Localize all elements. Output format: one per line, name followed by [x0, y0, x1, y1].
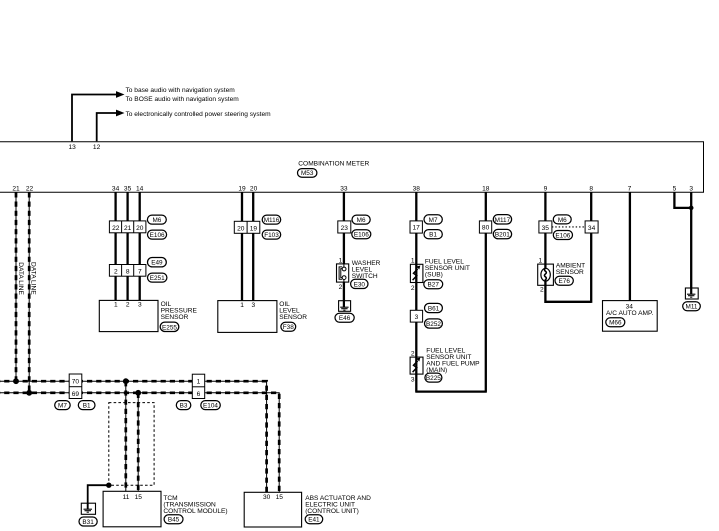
wire ambient sensor pin 2 to meter pin 8	[545, 285, 591, 302]
svg-text:23: 23	[341, 225, 349, 232]
svg-text:20: 20	[237, 225, 245, 232]
connector oval B1 group4	[424, 230, 442, 239]
svg-text:7: 7	[628, 185, 632, 192]
svg-text:B225: B225	[426, 375, 441, 382]
svg-text:M7: M7	[58, 403, 67, 410]
svg-text:35: 35	[542, 225, 550, 232]
wire pin 8	[590, 192, 592, 303]
wire pin 12 to power steering	[97, 113, 117, 141]
connector oval E49	[148, 258, 167, 267]
svg-text:3: 3	[138, 302, 142, 309]
wire pin 20	[252, 192, 254, 300]
svg-text:CONTROL MODULE): CONTROL MODULE)	[163, 508, 227, 515]
svg-text:6: 6	[197, 391, 201, 398]
fuel level sensor unit and fuel pump (main) B225	[410, 357, 423, 374]
svg-text:A/C AUTO AMP.: A/C AUTO AMP.	[606, 310, 654, 317]
connector oval E76	[555, 276, 573, 285]
junction pin 5 / pin 3	[689, 206, 694, 211]
connector oval M117	[493, 215, 511, 224]
connector oval M53	[298, 169, 317, 178]
svg-text:5: 5	[673, 185, 677, 192]
svg-text:SENSOR: SENSOR	[556, 269, 584, 276]
body ground E46	[339, 301, 351, 312]
connector oval E30	[351, 279, 368, 288]
svg-text:To electronically controlled p: To electronically controlled power steer…	[126, 111, 272, 118]
svg-text:B1: B1	[429, 232, 437, 239]
body ground M11	[685, 288, 698, 299]
svg-text:18: 18	[482, 185, 490, 192]
svg-text:2: 2	[339, 284, 343, 291]
svg-text:M6: M6	[357, 217, 366, 224]
connector oval M6 group1	[147, 215, 166, 224]
washer level switch E30	[337, 264, 349, 282]
wire pin 19	[241, 192, 243, 300]
ambient sensor E76 (thermistor)	[538, 264, 554, 285]
svg-text:12: 12	[93, 144, 101, 151]
connector oval M7 bottom	[55, 401, 70, 410]
body ground B31	[81, 503, 95, 514]
svg-text:1: 1	[240, 302, 244, 309]
svg-text:35: 35	[124, 185, 132, 192]
svg-text:To base audio with navigation: To base audio with navigation system	[126, 87, 236, 94]
shield dashed box around TCM data lines	[109, 403, 154, 486]
svg-text:3: 3	[251, 302, 255, 309]
connector B61/B252 cell 3	[410, 310, 422, 322]
connector oval B252	[425, 319, 443, 328]
wire pin 38	[415, 192, 417, 391]
svg-text:69: 69	[72, 391, 80, 398]
connector oval F38	[281, 322, 296, 331]
svg-text:E251: E251	[150, 275, 165, 282]
junction bus 1 / TCM branch	[123, 378, 129, 384]
svg-text:B61: B61	[428, 306, 440, 313]
svg-text:B201: B201	[495, 232, 510, 239]
connector M116/F103 cells 20 19	[234, 221, 259, 233]
data line wire pin 22	[28, 192, 30, 392]
svg-text:E49: E49	[151, 260, 163, 267]
connector oval E251	[148, 273, 167, 282]
svg-text:M116: M116	[264, 217, 280, 224]
connector oval E106 group1	[148, 230, 167, 239]
svg-text:B27: B27	[428, 282, 440, 289]
svg-text:F38: F38	[283, 324, 294, 331]
svg-text:3: 3	[415, 314, 419, 321]
svg-text:3: 3	[411, 377, 415, 384]
svg-text:22: 22	[112, 225, 120, 232]
connector oval M66	[606, 318, 625, 327]
svg-text:1: 1	[339, 258, 343, 265]
svg-text:SENSOR: SENSOR	[161, 314, 189, 321]
connector oval E255	[160, 322, 179, 331]
svg-text:M117: M117	[495, 217, 511, 224]
svg-text:14: 14	[136, 185, 144, 192]
svg-text:M6: M6	[152, 217, 161, 224]
wire pin 35	[126, 192, 128, 300]
svg-text:M6: M6	[558, 217, 567, 224]
data line branch to TCM pin 15	[137, 393, 139, 492]
svg-text:COMBINATION METER: COMBINATION METER	[298, 161, 369, 168]
svg-text:80: 80	[482, 225, 490, 232]
wire pin 34	[114, 192, 116, 300]
wire pin 3	[690, 192, 692, 287]
svg-text:17: 17	[413, 225, 421, 232]
svg-text:11: 11	[123, 494, 130, 501]
svg-text:(CONTROL UNIT): (CONTROL UNIT)	[305, 508, 359, 515]
svg-text:2: 2	[411, 351, 415, 358]
data line branch to TCM pin 11	[125, 381, 127, 491]
svg-text:B1: B1	[83, 403, 91, 410]
svg-text:F103: F103	[264, 232, 279, 239]
svg-text:15: 15	[135, 494, 143, 501]
wire pin 5	[674, 192, 691, 208]
svg-text:2: 2	[114, 268, 118, 275]
svg-text:20: 20	[250, 185, 258, 192]
svg-text:B45: B45	[168, 517, 180, 524]
svg-text:E255: E255	[162, 324, 177, 331]
svg-text:1: 1	[114, 302, 118, 309]
svg-text:DATA LINE: DATA LINE	[17, 262, 24, 295]
connector oval M6 group3	[352, 215, 370, 224]
svg-text:DATA LINE: DATA LINE	[30, 262, 37, 295]
svg-text:To BOSE audio with navigation: To BOSE audio with navigation system	[126, 96, 240, 103]
shield ground wire to B31	[88, 485, 109, 503]
wire pin 7	[629, 192, 631, 300]
junction bus 2 / TCM branch	[135, 390, 141, 396]
arrowhead pin 12	[116, 110, 125, 117]
svg-text:34: 34	[112, 185, 120, 192]
svg-text:19: 19	[250, 225, 258, 232]
data line bus 1 to ABS pin 30	[0, 381, 267, 492]
connector oval M6 group6	[553, 215, 571, 224]
connector M7/B1 cells 70 69	[69, 374, 82, 399]
connector oval B3	[176, 401, 191, 410]
svg-text:33: 33	[340, 185, 348, 192]
svg-text:2: 2	[126, 302, 130, 309]
connector oval E41	[305, 515, 323, 524]
TCM B45 box	[103, 491, 161, 527]
arrowhead pin 13	[116, 91, 125, 98]
dotted link between cells 35 and 34	[552, 226, 585, 228]
svg-text:E41: E41	[308, 517, 320, 524]
svg-text:13: 13	[69, 144, 77, 151]
connector oval B45	[164, 515, 183, 524]
junction pin 22 / bus 2	[26, 390, 32, 396]
data line bus 2 to ABS pin 15	[0, 393, 279, 493]
svg-text:1: 1	[197, 378, 201, 385]
svg-text:7: 7	[138, 268, 142, 275]
ground oval E46	[335, 313, 354, 322]
svg-text:E30: E30	[354, 281, 366, 288]
fuel level sensor unit (sub) B27	[410, 264, 423, 282]
connector M6/E106 cells 22 21 20	[109, 221, 145, 233]
connector oval B201	[493, 229, 511, 238]
svg-text:21: 21	[12, 185, 20, 192]
svg-text:9: 9	[544, 185, 548, 192]
ABS actuator E41 box	[244, 492, 301, 527]
combination meter M53 outline	[0, 142, 704, 193]
connector oval M116	[262, 215, 281, 224]
junction pin 21 / bus 1	[13, 378, 19, 384]
connector M6/E106 cell 35	[539, 221, 552, 233]
svg-text:E76: E76	[559, 278, 571, 285]
connector oval F103	[262, 230, 281, 239]
svg-text:1: 1	[539, 257, 543, 264]
svg-text:70: 70	[72, 378, 80, 385]
svg-text:E106: E106	[555, 232, 570, 239]
connector oval B27	[424, 280, 443, 289]
svg-text:SENSOR: SENSOR	[279, 314, 307, 321]
connector M7/B1 cell 17	[410, 221, 422, 233]
wire pin 33	[343, 192, 345, 300]
connector oval E106 group3	[352, 230, 371, 239]
svg-text:1: 1	[411, 257, 415, 264]
svg-text:15: 15	[276, 494, 284, 501]
svg-text:21: 21	[124, 225, 132, 232]
svg-text:E46: E46	[339, 315, 351, 322]
svg-text:B3: B3	[180, 403, 188, 410]
svg-text:E104: E104	[203, 403, 218, 410]
connector oval M7 group4	[424, 215, 442, 224]
svg-text:(SUB): (SUB)	[425, 272, 443, 279]
wire pin 13 to audio systems	[72, 95, 117, 142]
svg-text:20: 20	[136, 225, 144, 232]
svg-text:8: 8	[126, 268, 130, 275]
connector oval B61	[425, 303, 443, 312]
svg-text:30: 30	[263, 494, 271, 501]
svg-text:E106: E106	[150, 232, 165, 239]
svg-text:3: 3	[689, 185, 693, 192]
svg-text:B31: B31	[82, 519, 94, 526]
connector oval E106 group6	[553, 231, 572, 240]
wire pin 9	[544, 192, 546, 285]
wire pin 18	[485, 192, 487, 391]
connector B3/E104 cells 1 6	[192, 374, 204, 398]
svg-text:38: 38	[413, 185, 421, 192]
connector M6/E106 cell 34	[585, 221, 598, 233]
wire fuel pump loop bottom	[415, 390, 487, 392]
svg-text:M7: M7	[429, 217, 438, 224]
svg-text:8: 8	[589, 185, 593, 192]
wire pin 14	[139, 192, 141, 300]
svg-text:2: 2	[411, 285, 415, 292]
connector M6/E106 cell 23	[338, 221, 351, 233]
oil level sensor F38 box	[218, 301, 277, 333]
connector oval B1 bottom	[78, 401, 95, 410]
shield junction dot	[106, 483, 111, 488]
data line wire pin 21	[15, 192, 17, 381]
svg-text:34: 34	[588, 225, 596, 232]
connector oval B225	[425, 373, 442, 382]
svg-text:19: 19	[238, 185, 246, 192]
svg-text:M11: M11	[686, 304, 698, 311]
svg-text:E106: E106	[354, 232, 369, 239]
A/C auto amp M66 box	[603, 301, 658, 332]
svg-text:M53: M53	[301, 170, 314, 177]
ground oval B31	[79, 517, 97, 526]
ground oval M11	[683, 302, 701, 311]
connector M117/B201 cell 80	[479, 221, 491, 233]
connector oval E104	[201, 401, 221, 410]
connector E49/E251 cells 2 8 7	[109, 265, 145, 277]
svg-text:B252: B252	[426, 321, 441, 328]
oil pressure sensor E255 box	[99, 300, 158, 331]
svg-text:2: 2	[540, 286, 544, 293]
svg-text:M66: M66	[609, 320, 622, 327]
svg-text:22: 22	[26, 185, 34, 192]
